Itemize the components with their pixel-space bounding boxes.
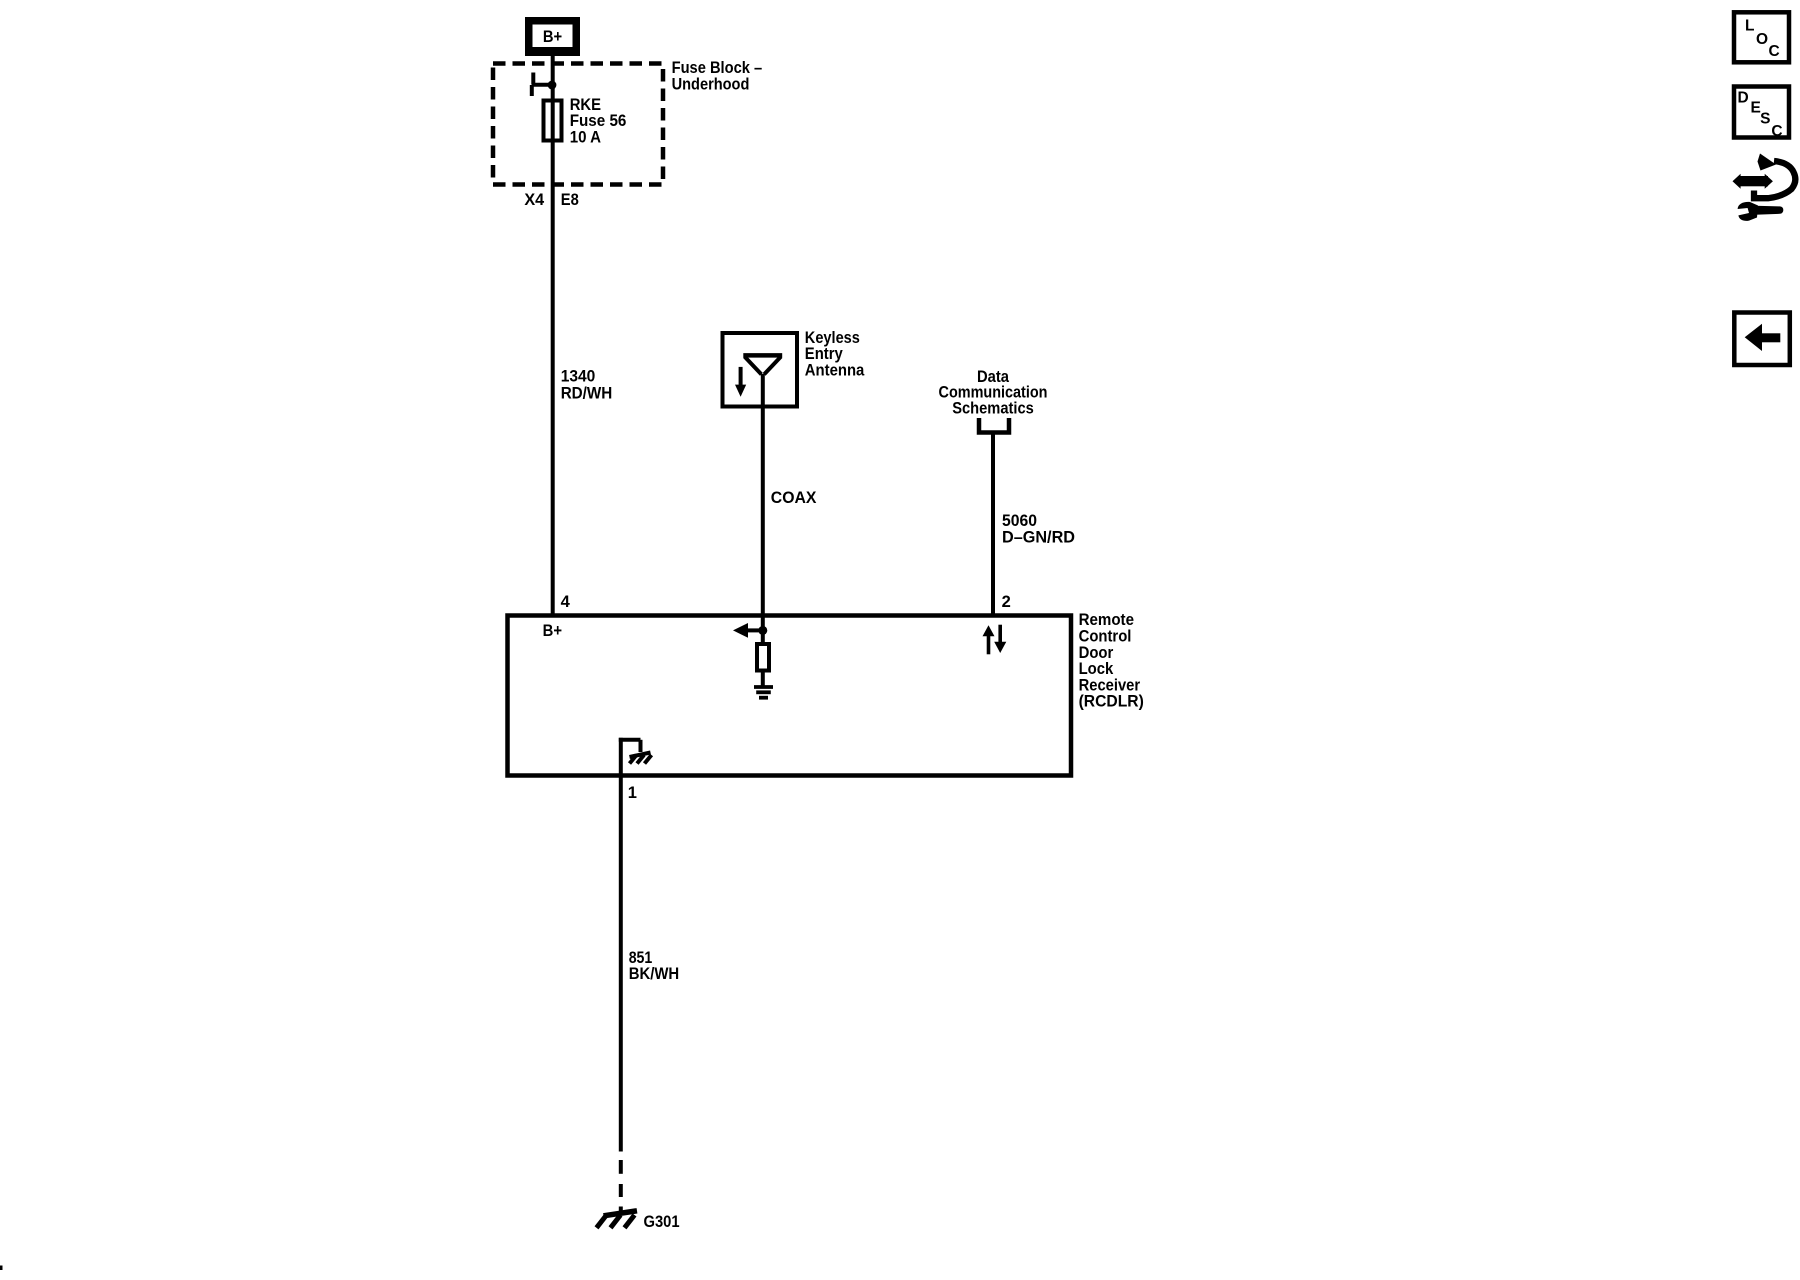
svg-text:E8: E8 bbox=[561, 191, 579, 209]
signal ground bbox=[754, 687, 773, 698]
power symbol B+ bbox=[525, 17, 580, 56]
serial data up/down arrows bbox=[983, 625, 1007, 655]
wire label 5060 D-GN/RD bbox=[1002, 512, 1075, 547]
svg-text:COAX: COAX bbox=[771, 489, 817, 507]
svg-text:RKE: RKE bbox=[570, 96, 601, 114]
svg-text:O: O bbox=[1756, 31, 1768, 48]
svg-text:S: S bbox=[1760, 110, 1770, 127]
bus tap symbol bbox=[532, 73, 554, 97]
label Data Communication Schematics bbox=[939, 368, 1048, 418]
svg-text:Fuse Block –: Fuse Block – bbox=[672, 59, 763, 77]
svg-text:B+: B+ bbox=[543, 622, 562, 640]
svg-text:2: 2 bbox=[1002, 593, 1011, 611]
coax wire antenna to RCDLR internal resistor bbox=[761, 374, 765, 645]
svg-text:D: D bbox=[1738, 89, 1749, 106]
svg-text:Keyless: Keyless bbox=[805, 329, 860, 347]
label Fuse Block - Underhood bbox=[672, 59, 763, 93]
svg-text:C: C bbox=[1771, 123, 1782, 140]
svg-text:(RCDLR): (RCDLR) bbox=[1079, 693, 1144, 711]
back arrow icon box bbox=[1734, 313, 1790, 366]
svg-text:L: L bbox=[1745, 18, 1754, 35]
svg-text:Antenna: Antenna bbox=[805, 361, 865, 379]
svg-text:Schematics: Schematics bbox=[952, 400, 1034, 418]
internal chassis ground symbol bbox=[630, 753, 652, 764]
svg-text:Lock: Lock bbox=[1079, 660, 1114, 678]
internal antenna input arrow bbox=[733, 623, 763, 638]
DESC icon box bbox=[1734, 87, 1789, 140]
svg-text:1340: 1340 bbox=[561, 368, 596, 386]
wire B+ to RCDLR pin 4 (circuit 1340) bbox=[551, 56, 555, 617]
svg-text:4: 4 bbox=[561, 593, 571, 611]
keyless entry antenna box bbox=[723, 333, 798, 407]
wire resistor to signal ground bbox=[761, 671, 765, 688]
svg-text:C: C bbox=[1769, 43, 1780, 60]
junction dot antenna input bbox=[758, 626, 767, 635]
schematic navigation icon bbox=[1733, 154, 1796, 221]
svg-text:RD/WH: RD/WH bbox=[561, 384, 613, 402]
wire data schematics to RCDLR pin 2 (circuit 5060) bbox=[991, 433, 995, 618]
svg-text:Underhood: Underhood bbox=[672, 75, 750, 93]
fuse RKE Fuse 56 10A bbox=[544, 101, 562, 141]
ground G301 chassis symbol bbox=[597, 1211, 638, 1228]
RCDLR box bbox=[508, 616, 1072, 776]
fuse block dashed box bbox=[493, 64, 663, 185]
svg-text:G301: G301 bbox=[644, 1213, 680, 1231]
LOC icon box bbox=[1734, 12, 1789, 62]
off-page connector bracket bbox=[979, 418, 1009, 433]
svg-text:1: 1 bbox=[628, 784, 637, 802]
antenna down arrow bbox=[735, 367, 746, 397]
internal ground stub pin 1 bbox=[619, 738, 641, 776]
wire pin 1 to G301 (circuit 851) bbox=[619, 776, 623, 1152]
wire label 1340 RD/WH bbox=[561, 368, 613, 403]
page speck bottom left bbox=[0, 1266, 3, 1271]
junction dot at tap bbox=[548, 81, 557, 90]
label RKE Fuse 56 10 A bbox=[570, 96, 627, 147]
svg-text:B+: B+ bbox=[543, 28, 562, 46]
svg-text:5060: 5060 bbox=[1002, 512, 1037, 530]
svg-text:10 A: 10 A bbox=[570, 129, 601, 147]
dashed wire segment to G301 bbox=[619, 1160, 623, 1211]
antenna symbol bbox=[743, 355, 782, 374]
label Keyless Entry Antenna bbox=[805, 329, 865, 380]
svg-text:Fuse 56: Fuse 56 bbox=[570, 112, 627, 130]
svg-text:BK/WH: BK/WH bbox=[629, 965, 680, 983]
wire label 851 BK/WH bbox=[629, 949, 680, 983]
svg-text:D–GN/RD: D–GN/RD bbox=[1002, 529, 1075, 547]
label Remote Control Door Lock Receiver (RCDLR) bbox=[1079, 611, 1144, 711]
svg-text:X4: X4 bbox=[524, 191, 545, 209]
internal resistor bbox=[757, 644, 769, 671]
svg-text:Remote: Remote bbox=[1079, 611, 1134, 629]
